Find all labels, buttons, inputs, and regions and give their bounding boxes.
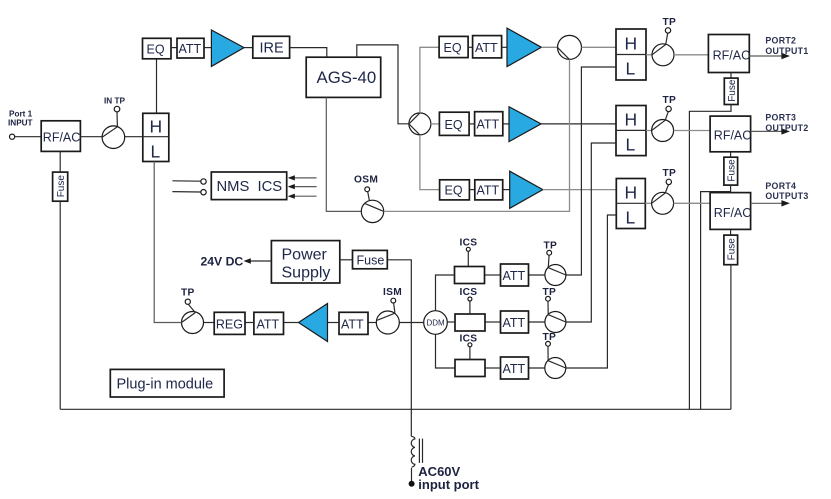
svg-text:Fuse: Fuse xyxy=(726,159,737,182)
equalizer EQ row3 xyxy=(440,180,470,200)
svg-text:Power: Power xyxy=(282,246,328,263)
filter H/L row3 xyxy=(616,179,645,229)
equalizer EQ row1 xyxy=(439,36,468,57)
wire H/L row1 to TP coupler row1 xyxy=(646,54,652,56)
equalizer EQ row2 xyxy=(439,112,469,135)
node ICS terminal branch A xyxy=(466,247,470,251)
svg-text:ATT: ATT xyxy=(179,42,202,56)
node TP terminal branch A xyxy=(547,250,552,255)
attenuator ATT branch A xyxy=(501,264,529,286)
coupler TP row2 xyxy=(652,120,674,142)
splitter SP1 (3-way) xyxy=(409,113,431,135)
coupler TP row3 xyxy=(652,192,674,214)
svg-text:INPUT: INPUT xyxy=(8,119,33,128)
power supply PS1 xyxy=(271,241,339,283)
svg-text:TP: TP xyxy=(181,288,195,299)
wire EQ row2 to ATT row2 xyxy=(469,123,475,125)
svg-text:Fuse: Fuse xyxy=(726,238,737,261)
fuse F1 (Port 1) xyxy=(53,172,68,201)
wire ATT1 to amplifier A1 xyxy=(204,47,211,49)
attenuator ATT return 2 xyxy=(339,312,368,334)
wire AGS-40 down to OSM line xyxy=(326,97,361,211)
node TP terminal row1 xyxy=(665,28,670,33)
node TP terminal return xyxy=(185,299,190,304)
wire IRE to AGS-40 input xyxy=(290,48,327,58)
wire TP coupler row3 to RF/AC U5 xyxy=(674,202,711,204)
node ICS terminal branch C xyxy=(468,343,472,347)
svg-text:NMS ICS: NMS ICS xyxy=(217,179,283,195)
node IN TP terminal xyxy=(114,106,120,112)
amplifier A2 (row1) xyxy=(507,28,541,67)
svg-text:TP: TP xyxy=(544,241,558,252)
wire fuse F1 to AC rail xyxy=(59,201,61,409)
svg-text:AGS-40: AGS-40 xyxy=(317,68,377,87)
filter H/L row2 xyxy=(616,106,646,156)
attenuator ATT row3 xyxy=(475,180,503,200)
svg-text:24V DC: 24V DC xyxy=(201,255,244,269)
svg-text:EQ: EQ xyxy=(147,42,165,56)
module IRE xyxy=(253,36,290,58)
coupler IN TP (input test point) xyxy=(102,126,125,149)
RF/AC U3 (Port 2) xyxy=(708,35,749,73)
node AC60V input port (filled dot) xyxy=(409,481,415,487)
svg-text:L: L xyxy=(626,207,636,227)
svg-text:RF/AC: RF/AC xyxy=(713,48,751,62)
wire ATT-A to coupler A xyxy=(529,274,545,276)
wire amplifier A2 to coupler row1 xyxy=(541,46,557,48)
attenuator ATT branch B xyxy=(501,311,529,333)
svg-text:RF/AC: RF/AC xyxy=(43,130,81,144)
wire splitter to EQ row2 xyxy=(431,123,440,125)
fuse F3 (Port 3) xyxy=(724,157,738,185)
node TP terminal branch C xyxy=(546,341,551,346)
wire RF/AC U4 to fuse F3 xyxy=(730,152,732,157)
wire fuse F4 down to AC rail corner xyxy=(730,265,732,410)
wire NMS arrow 3 xyxy=(292,195,317,197)
attenuator ATT return 1 xyxy=(254,312,284,334)
module ICS branch C xyxy=(455,360,485,377)
wire AC rail (bottom) xyxy=(60,408,731,410)
svg-text:TP: TP xyxy=(663,17,677,28)
coupler ISM xyxy=(376,311,399,334)
wire amplifier A1 to IRE xyxy=(244,47,253,49)
wire L return row3 xyxy=(566,215,616,368)
NMS ICS controller xyxy=(211,172,286,200)
node OSM terminal xyxy=(365,187,370,192)
filter H/L row1 xyxy=(616,29,646,80)
module U2 AGS-40 xyxy=(306,57,381,97)
attenuator ATT row2 xyxy=(475,112,503,136)
fuse F1 drop wire from RF/AC U1 xyxy=(59,151,61,172)
RF/AC U5 (Port 4) xyxy=(710,193,751,230)
svg-text:H: H xyxy=(625,182,638,202)
transformer T1 core xyxy=(418,439,420,463)
svg-text:ATT: ATT xyxy=(477,183,500,197)
svg-text:DDM: DDM xyxy=(427,318,446,327)
RF/AC U4 (Port 3) xyxy=(710,116,751,152)
wire DDM to ICS-C xyxy=(436,334,456,368)
svg-text:input port: input port xyxy=(418,477,479,492)
coupler TP branch B xyxy=(545,312,566,333)
RF/AC U1 (Port 1 diplexer) xyxy=(41,121,80,152)
module ICS branch B xyxy=(455,314,485,331)
svg-text:ATT: ATT xyxy=(257,317,280,331)
wire ATT row2 to amplifier A3 xyxy=(503,123,509,125)
wire input H/L L-port down to TP coupler return xyxy=(154,162,181,323)
svg-text:ISM: ISM xyxy=(383,287,402,298)
wire H/L row3 to TP coupler row3 xyxy=(645,202,651,204)
amplifier A1 (input amp) xyxy=(211,30,244,66)
wire fuse F2 to AC rail xyxy=(689,105,731,410)
svg-text:Supply: Supply xyxy=(282,264,331,281)
fuse F2 (Port 2) xyxy=(724,78,738,104)
wire ATT-C to coupler C xyxy=(529,367,545,369)
wire input terminal to RF/AC U1 xyxy=(15,136,42,138)
svg-text:RF/AC: RF/AC xyxy=(714,206,752,220)
node TP terminal branch B xyxy=(546,296,551,301)
equalizer EQ1 (top chain) xyxy=(143,38,172,59)
wire output Port 2 with arrow xyxy=(749,55,786,57)
attenuator ATT branch C xyxy=(501,357,529,379)
svg-text:OUTPUT2: OUTPUT2 xyxy=(765,123,808,133)
fuse F5 (power supply) xyxy=(353,250,388,268)
svg-text:Fuse: Fuse xyxy=(357,253,385,267)
wire ICS-B to ATT-B xyxy=(485,321,501,323)
wire DDM to ICS-B xyxy=(447,321,455,323)
svg-text:ATT: ATT xyxy=(503,269,526,283)
svg-text:IRE: IRE xyxy=(260,41,285,57)
svg-text:EQ: EQ xyxy=(445,118,463,132)
wire output Port 4 with arrow xyxy=(751,202,786,204)
wire EQ row1 to ATT row1 xyxy=(468,46,473,48)
svg-text:TP: TP xyxy=(663,95,677,106)
svg-text:ATT: ATT xyxy=(477,118,500,132)
wire L return row2 xyxy=(566,143,616,322)
module ICS branch A xyxy=(455,267,485,284)
wire ATT row3 to amplifier A4 xyxy=(503,189,510,191)
attenuator ATT row1 xyxy=(473,36,502,58)
wire amplifier A4 to H/L row3 xyxy=(543,189,617,191)
svg-text:REG: REG xyxy=(216,317,243,331)
wire output Port 3 with arrow xyxy=(751,130,786,132)
attenuator ATT1 (top chain) xyxy=(177,38,204,58)
svg-text:OUTPUT3: OUTPUT3 xyxy=(765,191,808,201)
amplifier A5 (return, points left) xyxy=(299,304,328,342)
svg-text:IN TP: IN TP xyxy=(104,97,125,106)
wire TP coupler return to REG xyxy=(204,322,215,324)
wire ATT-B to coupler B xyxy=(529,321,545,323)
wire ATT return 1 to amplifier A5 xyxy=(284,322,299,324)
wire fuse F5 to AC60V line xyxy=(387,260,411,437)
regulator REG xyxy=(214,312,245,334)
combiner DDM xyxy=(424,311,448,335)
wire ISM coupler to DDM xyxy=(399,322,423,324)
svg-text:EQ: EQ xyxy=(444,41,462,55)
coupler TP branch C xyxy=(545,358,566,379)
wire RF/AC U1 to input test point coupler xyxy=(80,136,102,138)
wire coupler row1 to H/L row1 xyxy=(582,46,617,48)
svg-text:H: H xyxy=(625,109,638,129)
wire L return row1 xyxy=(566,67,616,275)
wire splitter to EQ row3 xyxy=(420,135,440,190)
node Port 1 input terminal xyxy=(10,134,15,139)
wire AGS-40 output to splitter xyxy=(357,45,409,124)
wire power supply to fuse F5 xyxy=(340,259,353,261)
coupler TP row1 xyxy=(652,44,674,66)
wire ICS-A to ATT-A xyxy=(485,274,501,276)
wire NMS arrow 2 xyxy=(292,186,317,188)
svg-text:L: L xyxy=(151,142,161,162)
wire RF/AC U3 to fuse F2 xyxy=(730,73,732,79)
filter H/L input xyxy=(143,113,169,161)
node NMS contact B xyxy=(201,190,206,195)
svg-text:ATT: ATT xyxy=(503,316,526,330)
node ISM terminal xyxy=(391,298,396,303)
wire RF/AC U5 to fuse F4 xyxy=(730,229,732,235)
svg-text:PORT2: PORT2 xyxy=(765,36,796,46)
svg-text:H: H xyxy=(150,116,163,136)
wire REG to ATT return 1 xyxy=(245,322,254,324)
wire ATT row1 to amplifier A2 xyxy=(502,46,507,48)
wire 24V DC arrow from power supply xyxy=(249,260,271,262)
fuse F4 (Port 4) xyxy=(724,235,738,265)
svg-text:ATT: ATT xyxy=(475,41,498,55)
wire NMS arrow 1 xyxy=(292,177,317,179)
svg-text:PORT4: PORT4 xyxy=(765,181,796,191)
amplifier A3 (row2) xyxy=(509,107,541,142)
svg-text:L: L xyxy=(626,134,636,154)
node TP terminal row3 xyxy=(666,179,671,184)
svg-text:Plug-in module: Plug-in module xyxy=(117,377,214,393)
amplifier A4 (row3) xyxy=(510,171,543,208)
coupler TP return xyxy=(182,312,204,334)
wire EQ1 to ATT1 xyxy=(171,47,177,49)
module boundary Plug-in module xyxy=(110,369,224,397)
svg-text:Fuse: Fuse xyxy=(727,79,738,102)
coupler OSM xyxy=(361,200,383,222)
wire coil to AC60V input node xyxy=(411,468,413,481)
wire H port up to EQ1 xyxy=(156,59,158,114)
svg-text:ATT: ATT xyxy=(503,362,526,376)
wire amplifier A5 to ATT return 2 xyxy=(328,322,340,324)
coupler CP1 (OSM insert, row1) xyxy=(558,35,582,59)
wire ICS-C to ATT-C xyxy=(485,367,501,369)
wire TP coupler row1 to RF/AC U3 xyxy=(674,54,708,56)
svg-text:TP: TP xyxy=(663,168,677,179)
svg-text:EQ: EQ xyxy=(445,184,463,198)
wire TP coupler row2 to RF/AC U4 xyxy=(674,130,711,132)
svg-text:ATT: ATT xyxy=(341,317,364,331)
wire ATT return 2 to ISM coupler xyxy=(368,322,376,324)
svg-text:ICS: ICS xyxy=(460,287,478,298)
transformer T1 (AC60V input coil) xyxy=(411,436,415,467)
wire splitter to EQ row1 xyxy=(420,47,439,113)
wire DDM to ICS-A xyxy=(436,275,455,311)
svg-text:H: H xyxy=(625,34,638,54)
svg-text:OUTPUT1: OUTPUT1 xyxy=(765,46,808,56)
wire OSM coupler to row1 coupler tap xyxy=(384,59,570,211)
wire coupler to H/L input diplex filter xyxy=(125,136,143,138)
node NMS contact A xyxy=(201,179,206,184)
coupler TP branch A xyxy=(545,265,566,286)
svg-text:Port 1: Port 1 xyxy=(9,110,33,119)
wire H/L row2 to TP coupler row2 xyxy=(646,130,652,132)
wire amplifier A3 to H/L row2 xyxy=(541,123,616,125)
svg-text:Fuse: Fuse xyxy=(56,175,67,198)
svg-text:PORT3: PORT3 xyxy=(765,112,796,122)
wire EQ row3 to ATT row3 xyxy=(469,189,474,191)
wire fuse F3 to AC rail xyxy=(701,185,731,409)
node ICS terminal branch B xyxy=(468,297,472,301)
wire NMS contact A xyxy=(172,180,200,182)
svg-text:L: L xyxy=(626,59,636,79)
wire NMS contact B xyxy=(172,191,200,193)
node TP terminal row2 xyxy=(666,106,671,111)
svg-text:RF/AC: RF/AC xyxy=(714,128,752,142)
svg-text:OSM: OSM xyxy=(354,174,378,185)
